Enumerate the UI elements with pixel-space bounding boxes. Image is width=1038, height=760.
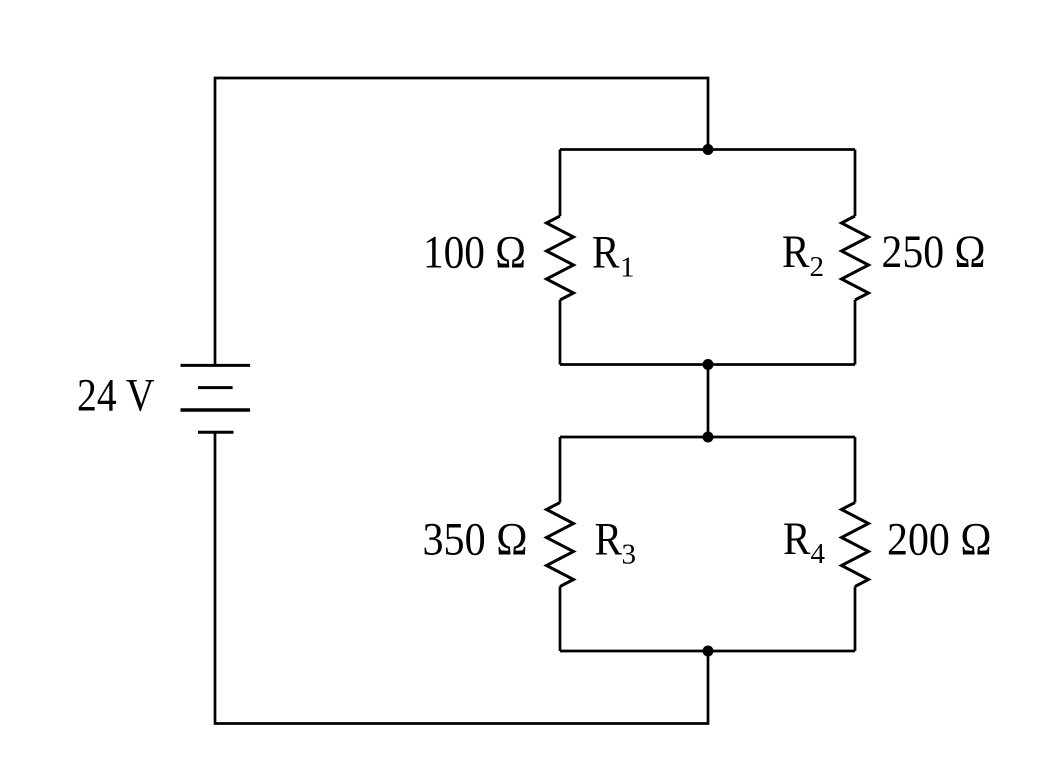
svg-text:350 Ω: 350 Ω bbox=[423, 514, 528, 565]
resistor R4 zigzag bbox=[842, 503, 869, 587]
svg-text:24 V: 24 V bbox=[77, 371, 155, 422]
battery B1 short plate 4 bbox=[198, 431, 234, 434]
node junction dot upper-middle bbox=[703, 359, 714, 370]
wire: bottom rail of first parallel pair bbox=[560, 363, 855, 366]
svg-text:1: 1 bbox=[620, 251, 635, 283]
battery B1 long plate 3 bbox=[181, 408, 251, 411]
svg-text:R: R bbox=[782, 227, 810, 278]
battery B1 long plate 1 bbox=[181, 364, 251, 367]
svg-text:200 Ω: 200 Ω bbox=[887, 514, 992, 565]
svg-text:3: 3 bbox=[622, 538, 637, 570]
svg-text:4: 4 bbox=[811, 538, 826, 570]
wire: top rail of first parallel pair bbox=[560, 148, 855, 151]
wire bottom-left: battery negative down and across to bottom node bbox=[215, 432, 708, 723]
svg-text:R: R bbox=[595, 514, 623, 565]
wire top-left: battery positive up and across to top node bbox=[215, 78, 708, 365]
wire: top rail of second parallel pair bbox=[560, 436, 855, 439]
battery B1 short plate 2 bbox=[198, 386, 233, 389]
wire: R4 branch verticals bbox=[854, 437, 857, 651]
resistor R2 zigzag bbox=[842, 216, 869, 300]
wire: middle link between pairs bbox=[707, 365, 710, 438]
wire: R3 branch verticals bbox=[559, 437, 562, 651]
svg-text:R: R bbox=[592, 227, 620, 278]
node junction dot top bbox=[703, 144, 714, 155]
svg-text:R: R bbox=[783, 514, 811, 565]
wire: R1 branch verticals bbox=[559, 150, 562, 365]
node junction dot bottom bbox=[703, 646, 714, 657]
svg-text:250 Ω: 250 Ω bbox=[882, 227, 986, 278]
wire: bottom rail of second parallel pair bbox=[560, 650, 855, 653]
resistor R1 zigzag bbox=[547, 216, 574, 300]
node junction dot lower-middle bbox=[703, 432, 714, 443]
svg-text:2: 2 bbox=[810, 251, 825, 283]
resistor R3 zigzag bbox=[547, 503, 574, 587]
svg-text:100 Ω: 100 Ω bbox=[423, 227, 526, 278]
wire: R2 branch verticals bbox=[854, 150, 857, 365]
